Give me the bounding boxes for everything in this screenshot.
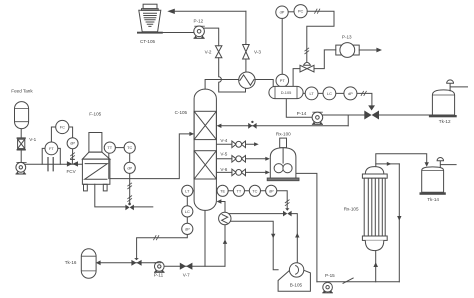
svg-text:PC: PC <box>298 9 304 14</box>
wire FT tap left <box>42 148 45 164</box>
wire Rx-100 outlet to P-15 <box>296 173 317 281</box>
compressor P-13 <box>336 34 359 57</box>
svg-text:P-14: P-14 <box>297 111 307 116</box>
wire signal dP to FCV <box>72 149 74 160</box>
instrument TT row <box>233 185 244 196</box>
instrument LC drum <box>323 87 336 100</box>
svg-text:D-105: D-105 <box>281 90 292 95</box>
arrow reflux into column <box>217 124 222 128</box>
wire signal PC to PV valve <box>307 11 334 62</box>
wire reboiler hot line from valve <box>229 214 298 263</box>
wire TT to TC link <box>115 147 124 149</box>
svg-text:TT: TT <box>107 145 112 150</box>
wire D-105 bottom to P-14 <box>286 99 312 118</box>
wire condenser to D-105 <box>255 80 273 87</box>
feed tank <box>11 89 33 129</box>
svg-text:Tk-16: Tk-16 <box>65 260 77 265</box>
wire column overhead to condenser <box>205 80 239 90</box>
wire TT stem into furnace <box>108 153 110 178</box>
wire TE stem <box>215 190 218 192</box>
arrow feed into column <box>189 132 194 136</box>
wire Rx-105 top to Tk-14 <box>376 154 427 167</box>
signal break LV horizontal <box>361 91 367 96</box>
valve V-2 <box>205 46 222 58</box>
svg-text:V-6: V-6 <box>220 167 227 172</box>
arrow V-6 into reactor <box>265 170 270 174</box>
condenser heat exchanger <box>239 72 255 88</box>
svg-text:LT: LT <box>185 188 190 193</box>
svg-text:LC: LC <box>185 209 190 214</box>
reactor Rx-100 <box>267 131 299 180</box>
svg-text:Rx-105: Rx-105 <box>344 207 359 212</box>
valve V-5 <box>220 152 245 163</box>
svg-text:PT: PT <box>280 78 286 83</box>
arrow P-13 outlet <box>376 48 382 53</box>
tank Tk-12 <box>429 90 457 124</box>
svg-text:V-4: V-4 <box>220 138 227 143</box>
wire V-1 to feed pump <box>20 150 22 163</box>
instrument dP top <box>276 6 288 18</box>
instrument dP furnace <box>124 162 135 173</box>
instrument dP column <box>182 223 193 234</box>
fuel valve <box>125 203 133 211</box>
packed bed upper <box>194 111 216 139</box>
instrument dP feed <box>67 138 78 149</box>
svg-text:dP: dP <box>70 141 75 146</box>
bottoms control valve <box>131 258 141 266</box>
signal break PC horizontal <box>314 9 320 14</box>
svg-text:TC: TC <box>127 145 132 150</box>
pump P-11 <box>154 262 165 278</box>
svg-text:TC: TC <box>252 188 257 193</box>
wire drum LT LC dP links <box>303 92 344 94</box>
wire FT tap right <box>58 148 60 164</box>
svg-text:dP: dP <box>269 188 274 193</box>
tank Tk-16 <box>65 249 96 278</box>
arrow down to B-105 <box>271 234 275 239</box>
wire bottoms line to Tk-16 <box>100 263 225 266</box>
svg-text:LC: LC <box>327 91 332 96</box>
cooling tower CT-105 <box>137 4 163 44</box>
wire P-12 discharge to V-2 <box>204 28 219 46</box>
instrument dP row <box>266 185 277 196</box>
svg-text:dP: dP <box>348 91 353 96</box>
signal break TC-fuel valve <box>127 183 132 202</box>
wire LC to dP link <box>186 217 188 223</box>
arrow into CT-105 <box>167 9 175 14</box>
svg-text:F-105: F-105 <box>89 111 101 116</box>
wire FC to dP <box>69 127 73 138</box>
wire P-13 outlet <box>359 49 377 51</box>
arrow up from B-105 <box>295 233 299 238</box>
wire TC to dP link <box>129 153 131 162</box>
instrument TC furnace <box>124 142 135 153</box>
arrow reboiler riser up <box>223 239 227 244</box>
instrument dP drum <box>344 87 357 100</box>
svg-text:CT-105: CT-105 <box>140 39 156 44</box>
wire LT to LC link <box>186 196 188 205</box>
wire P-14 discharge <box>323 114 365 116</box>
wire signal dP to LV valve <box>357 93 372 105</box>
instrument LC column <box>182 206 193 217</box>
feed pump <box>16 162 27 174</box>
instrument PC <box>294 5 307 18</box>
svg-text:Feed Tank: Feed Tank <box>11 89 33 94</box>
burner B-105 <box>278 263 310 292</box>
svg-text:dP: dP <box>185 226 190 231</box>
wire LV valve to Tk-12 <box>379 114 432 116</box>
control valve FCV <box>67 159 79 174</box>
wire PT to dP vertical <box>281 18 283 74</box>
svg-text:dP: dP <box>280 10 285 15</box>
svg-text:P-15: P-15 <box>325 273 335 278</box>
svg-text:P-11: P-11 <box>154 272 164 277</box>
drum D-105 <box>269 86 303 98</box>
svg-text:dP: dP <box>127 165 132 170</box>
svg-text:Rx-100: Rx-100 <box>276 131 291 136</box>
pump P-15 <box>322 273 335 293</box>
arrow reboiler return into column <box>217 199 222 203</box>
instrument LT column <box>182 185 193 196</box>
wire V-5 line <box>216 158 265 160</box>
wire feed tank to V-1 <box>20 129 22 138</box>
wire V-3 riser <box>245 11 247 72</box>
wire V-4 line <box>216 143 254 145</box>
furnace F-105 <box>82 111 110 191</box>
arrow into Tk-16 <box>96 260 101 265</box>
wire Rx-105 recirculation <box>398 164 400 282</box>
column C-105 <box>175 89 217 210</box>
svg-text:FT: FT <box>49 146 54 151</box>
reactor Rx-105 <box>344 167 387 251</box>
svg-text:V-1: V-1 <box>29 137 36 142</box>
instrument PT <box>276 74 289 87</box>
svg-text:TE: TE <box>220 188 225 193</box>
valve V-6 <box>220 167 245 176</box>
svg-text:B-105: B-105 <box>290 283 303 288</box>
wire reflux drop <box>347 115 349 126</box>
svg-text:P-13: P-13 <box>342 34 352 39</box>
control valve hot oil <box>283 208 292 216</box>
wire FT to FC <box>51 127 55 142</box>
control valve LV <box>364 105 379 119</box>
wire reboiler hot return to B-105 <box>230 221 278 269</box>
arrow Rx-105 feed up <box>373 262 378 267</box>
wire reboiler riser <box>224 225 226 267</box>
wire reboiler return to column <box>219 202 225 213</box>
wire LT stem <box>193 190 194 192</box>
valve V-7 <box>180 263 193 278</box>
svg-text:FC: FC <box>60 125 65 130</box>
manual valve tick P-15 line <box>343 278 354 284</box>
valve V-1 <box>17 137 37 150</box>
wire cooling return to CT-105 <box>174 10 246 12</box>
wire furnace fuel line <box>95 184 153 207</box>
orifice plate FT <box>48 157 53 171</box>
wire column bottoms downcomer <box>204 210 206 266</box>
wire signal dP to fuel valve <box>129 173 131 203</box>
svg-text:C-105: C-105 <box>175 110 188 115</box>
svg-text:V-7: V-7 <box>183 272 190 277</box>
arrow recirculation down <box>397 216 401 221</box>
signal break bottoms horizontal <box>153 235 159 240</box>
wire D-105 to PV valve <box>293 69 300 87</box>
instrument FC <box>56 120 69 133</box>
wire P-15 discharge <box>317 281 399 283</box>
wire Rx-105 branch <box>376 163 400 165</box>
valve V-4 <box>220 138 245 148</box>
tank Tk-14 <box>420 167 446 202</box>
instrument TT furnace <box>104 142 115 153</box>
wire PV valve to P-13 <box>314 50 336 69</box>
instrument LT drum <box>305 87 318 100</box>
pump P-14 <box>297 111 323 124</box>
svg-text:TT: TT <box>237 188 242 193</box>
instrument FT <box>45 142 58 155</box>
relief vent Tk-14 <box>437 158 457 169</box>
arrow branch right <box>387 162 392 166</box>
wire Rx-105 feed riser <box>375 251 377 282</box>
wire V-6 line <box>216 171 265 173</box>
instrument TE <box>217 185 228 196</box>
arrow into Tk-14 down <box>425 162 429 167</box>
wire dP to PC link <box>288 11 294 13</box>
svg-text:Tk-12: Tk-12 <box>439 119 451 124</box>
wire signal row dP to B-105 valve <box>277 191 287 208</box>
wire CT basin to P-12 <box>163 32 194 34</box>
svg-text:P-12: P-12 <box>194 19 204 24</box>
wire signal dP to bottoms valve <box>137 235 188 259</box>
reboiler exchanger <box>219 212 231 224</box>
arrow V-4 outlet <box>254 142 259 146</box>
valve V-3 <box>243 45 262 60</box>
instrument TC row <box>249 185 260 196</box>
control valve PV <box>300 62 314 72</box>
signal break row dP vertical <box>285 200 290 206</box>
svg-text:FCV: FCV <box>67 169 77 174</box>
packed bed lower <box>194 151 216 179</box>
wire furnace outlet to column <box>110 134 190 179</box>
signal break dP-FCV <box>70 153 75 159</box>
signal break PV vertical <box>305 48 310 54</box>
wire V-2 to condenser with pipe jump <box>219 58 246 92</box>
svg-text:Tk-14: Tk-14 <box>427 197 439 202</box>
pump P-12 <box>194 19 205 39</box>
relief vent Tk-12 <box>447 80 468 91</box>
svg-text:V-5: V-5 <box>220 152 227 157</box>
svg-text:V-3: V-3 <box>254 50 261 55</box>
svg-text:V-2: V-2 <box>205 50 212 55</box>
svg-text:LT: LT <box>309 91 314 96</box>
wire TE TT TC dP links <box>228 190 265 192</box>
wire feed line pump to furnace <box>24 163 82 165</box>
wire reflux line to column <box>221 125 348 127</box>
reflux valve <box>248 121 256 129</box>
arrow V-5 into reactor <box>265 157 270 161</box>
